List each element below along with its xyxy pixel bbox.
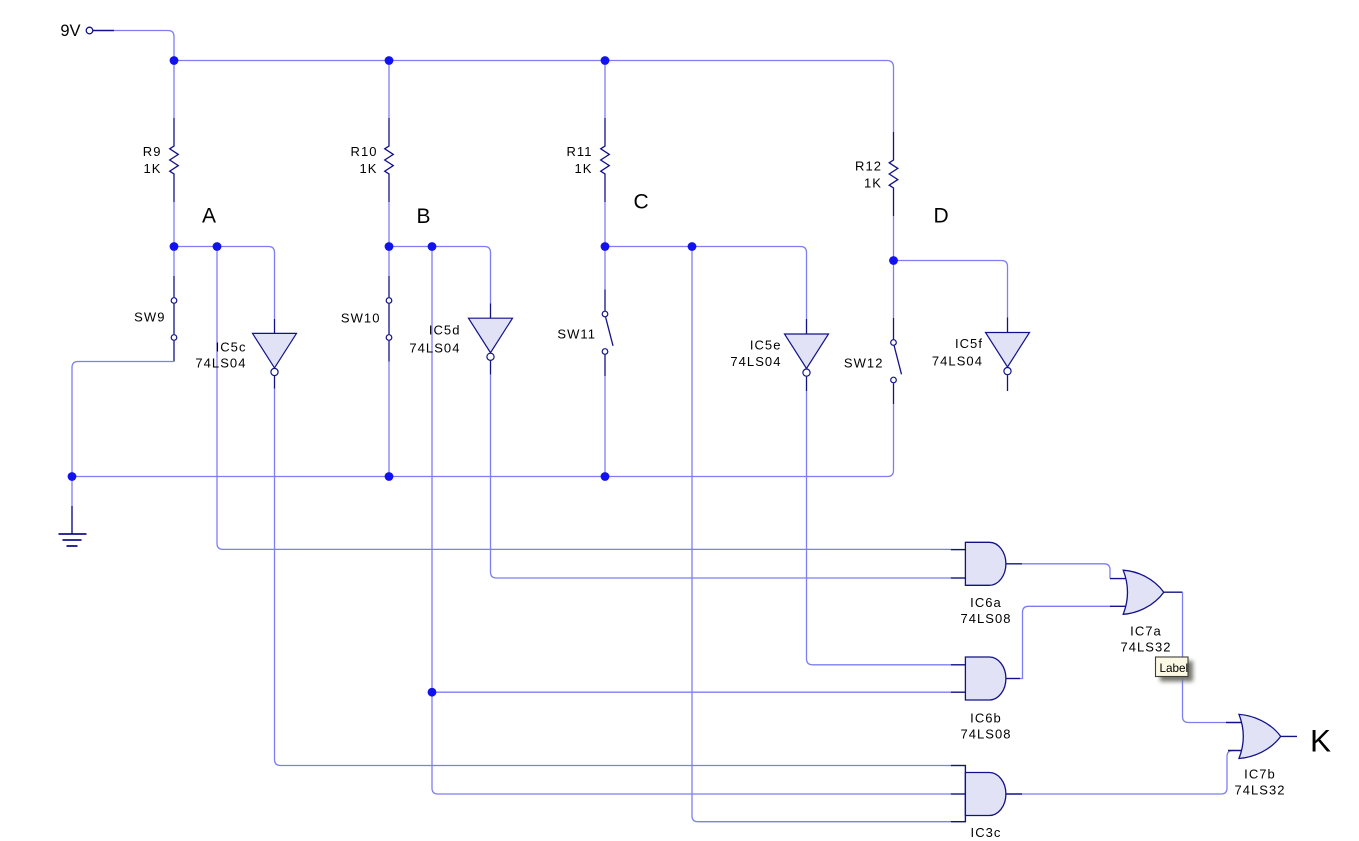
wire IC6b output to IC7a input 2 (1020, 606, 1110, 678)
wire node B tap down to IC3c input 2 (432, 692, 951, 794)
svg-text:K: K (1310, 723, 1331, 759)
inverter IC5f 74LS04 (932, 318, 1030, 392)
wire SW9 to ground rail (72, 362, 174, 477)
wire IC3c output to IC7b input 2 (1022, 751, 1233, 795)
svg-text:R9: R9 (143, 144, 162, 159)
svg-text:1K: 1K (574, 161, 592, 176)
svg-text:1K: 1K (864, 176, 882, 191)
svg-text:74LS32: 74LS32 (1120, 640, 1171, 655)
wire rail to R11 (604, 61, 606, 119)
junction power rail / R11 (601, 56, 610, 65)
svg-text:D: D (934, 205, 949, 228)
wire IC7a output to IC7b input 1 (1183, 592, 1227, 722)
svg-text:1K: 1K (359, 161, 377, 176)
junction node C tap (688, 242, 697, 251)
or-gate IC7b 74LS32 (1226, 714, 1297, 797)
svg-text:IC5c: IC5c (216, 339, 247, 354)
svg-text:SW12: SW12 (844, 356, 884, 371)
svg-text:SW10: SW10 (341, 311, 381, 326)
switch SW12 (open) (844, 318, 902, 404)
svg-text:R10: R10 (351, 144, 378, 159)
svg-text:74LS04: 74LS04 (195, 355, 246, 370)
switch SW9 (closed) (134, 276, 177, 362)
junction node B / R10-SW10 (385, 242, 394, 251)
svg-text:1K: 1K (143, 161, 161, 176)
wire SW10 to ground rail (388, 362, 390, 477)
svg-text:74LS08: 74LS08 (960, 727, 1011, 742)
junction node D / R12-SW12 (889, 256, 898, 265)
svg-text:IC5e: IC5e (750, 338, 782, 353)
resistor R9 1K (143, 118, 179, 202)
junction ground rail / SW11 (601, 472, 610, 481)
wire node D row (894, 261, 1008, 318)
svg-text:IC5d: IC5d (429, 323, 461, 338)
wire node B row (389, 247, 491, 304)
switch SW10 (closed) (341, 276, 392, 362)
wire IC5e output to IC6b input 1 (807, 391, 951, 665)
wire IC5c output to IC3c input 1 (275, 389, 951, 766)
wire IC5d output to IC6a input 2 (491, 375, 951, 578)
svg-text:IC6a: IC6a (970, 595, 1002, 610)
svg-text:R12: R12 (855, 159, 882, 174)
svg-text:Label: Label (1160, 662, 1189, 675)
resistor R12 1K (855, 132, 898, 216)
wire rail to R9 (173, 61, 175, 119)
battery terminal 9V (60, 22, 114, 40)
and-gate IC6a 74LS08 (951, 542, 1022, 626)
svg-text:SW11: SW11 (557, 327, 596, 342)
svg-text:IC5f: IC5f (955, 336, 983, 351)
resistor R10 1K (351, 118, 394, 202)
wire node C to SW11 (604, 247, 606, 290)
svg-text:C: C (634, 191, 649, 214)
svg-text:IC3c: IC3c (971, 825, 1002, 840)
tooltip Label (1156, 657, 1194, 682)
ground (59, 506, 87, 546)
wire SW11 to ground rail (604, 376, 606, 477)
junction ground rail left (68, 472, 77, 481)
and-gate IC6b 74LS08 (951, 657, 1020, 742)
svg-text:9V: 9V (60, 22, 80, 40)
svg-text:IC7b: IC7b (1244, 767, 1276, 782)
junction node B tap (428, 242, 437, 251)
svg-text:A: A (202, 205, 216, 228)
or-gate IC7a 74LS32 (1110, 570, 1183, 654)
junction node A tap (213, 242, 222, 251)
svg-text:74LS08: 74LS08 (960, 611, 1011, 626)
svg-text:74LS04: 74LS04 (730, 354, 781, 369)
wire rail to R10 (388, 61, 390, 119)
wire R12 to node D (893, 216, 895, 261)
svg-text:74LS04: 74LS04 (409, 341, 460, 356)
junction power rail / R9 (170, 56, 179, 65)
wire node C tap down to IC3c input 3 (692, 247, 951, 822)
svg-text:IC6b: IC6b (970, 711, 1002, 726)
wire node A to SW9 (173, 247, 175, 277)
svg-text:B: B (417, 205, 431, 228)
wire node D to SW12 (893, 261, 895, 319)
wire IC6a output to IC7a input 1 (1022, 564, 1110, 579)
junction node B tap / IC6b-IC3c branch (428, 688, 437, 697)
svg-text:SW9: SW9 (134, 310, 165, 325)
wire R10 to node B (388, 202, 390, 247)
junction power rail / R10 (385, 56, 394, 65)
inverter IC5d 74LS04 (409, 304, 512, 375)
and-gate IC3c (3-input) (951, 766, 1022, 841)
wire power rail 9V (174, 61, 894, 133)
wire SW12 to ground rail (72, 404, 894, 477)
svg-text:74LS32: 74LS32 (1234, 783, 1285, 798)
wire ground stem (71, 477, 73, 507)
inverter IC5c 74LS04 (195, 319, 296, 389)
junction node A / R9-SW9 (170, 242, 179, 251)
svg-text:IC7a: IC7a (1130, 624, 1162, 639)
junction ground rail / SW10 (385, 472, 394, 481)
wire node B to SW10 (388, 247, 390, 277)
resistor R11 1K (566, 118, 609, 202)
wire 9V terminal to power rail (114, 31, 174, 61)
svg-text:R11: R11 (566, 144, 592, 159)
svg-text:74LS04: 74LS04 (932, 354, 983, 369)
junction node C / R11-SW11 (601, 242, 610, 251)
inverter IC5e 74LS04 (730, 319, 828, 391)
wire R9 to node A (173, 202, 175, 247)
wire node B tap down to IC6b input 2 (431, 247, 433, 693)
switch SW11 (open) (557, 290, 613, 377)
wire node A row (174, 247, 275, 320)
wire R11 to node C (604, 202, 606, 247)
wire node A tap down to IC6a input 1 (217, 247, 951, 550)
wire node C row (605, 247, 807, 320)
